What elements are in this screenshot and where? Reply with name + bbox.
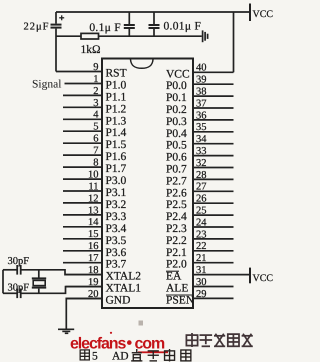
pin 9 RST wire, number and name label bbox=[56, 62, 127, 80]
capacitor C3 0.01uF with value label bbox=[149, 12, 202, 36]
svg-text:XTAL1: XTAL1 bbox=[106, 283, 142, 295]
svg-text:25: 25 bbox=[196, 206, 207, 217]
wire XTAL2 stub left of C4 bbox=[3, 269, 17, 271]
svg-text:12: 12 bbox=[88, 193, 99, 204]
pin 13 P3.3 wire, number and name label bbox=[63, 205, 127, 223]
pin 5 P1.4 wire, number and name label bbox=[63, 122, 127, 140]
svg-text:P0.7: P0.7 bbox=[166, 164, 187, 176]
svg-text:P3.7: P3.7 bbox=[106, 259, 127, 271]
svg-text:RST: RST bbox=[106, 68, 127, 80]
svg-text:P2.7: P2.7 bbox=[166, 175, 187, 187]
svg-text:com: com bbox=[135, 336, 165, 353]
svg-text:XTAL2: XTAL2 bbox=[106, 271, 142, 283]
svg-text:Signal: Signal bbox=[32, 79, 61, 91]
pin 14 P3.4 wire, number and name label bbox=[63, 217, 127, 235]
VCC terminal (right, at EA pin) with label bbox=[250, 268, 273, 284]
capacitor C1 22uF electrolytic with + and value label bbox=[24, 12, 65, 33]
svg-text:4: 4 bbox=[93, 110, 99, 121]
pin 40 VCC wire, number and name label bbox=[166, 63, 234, 81]
wire XTAL2 net (pin18 jog + top crystal wire) bbox=[22, 270, 103, 275]
capacitor C4 30pF with value label bbox=[8, 256, 30, 275]
crystal Y1 bbox=[32, 270, 46, 294]
pin 21 P2.0 wire, number and name label bbox=[166, 253, 234, 271]
svg-text:0.01μ F: 0.01μ F bbox=[164, 21, 202, 33]
svg-text:29: 29 bbox=[196, 289, 207, 300]
svg-text:AD: AD bbox=[112, 351, 129, 362]
svg-text:23: 23 bbox=[196, 229, 207, 240]
svg-text:9: 9 bbox=[93, 62, 98, 73]
svg-text:P0.2: P0.2 bbox=[166, 104, 187, 116]
svg-text:40: 40 bbox=[196, 63, 207, 74]
VCC terminal (top right) with label bbox=[250, 4, 273, 22]
resistor R1 1k with value label bbox=[80, 33, 100, 56]
pin 7 P1.6 wire, number and name label bbox=[63, 146, 127, 164]
svg-text:22μF: 22μF bbox=[24, 22, 50, 33]
svg-text:14: 14 bbox=[88, 217, 99, 228]
svg-text:1: 1 bbox=[93, 74, 98, 85]
svg-text:VCC: VCC bbox=[253, 273, 274, 284]
svg-text:P3.2: P3.2 bbox=[106, 199, 127, 211]
pin 1 P1.0 wire, number and name label bbox=[65, 74, 127, 92]
capacitor C5 30pF with value label bbox=[8, 283, 30, 299]
svg-text:0.1μ F: 0.1μ F bbox=[89, 22, 121, 34]
wire reset node vertical (cap to RST corner) bbox=[55, 29, 57, 72]
svg-text:P0.1: P0.1 bbox=[166, 92, 187, 104]
svg-text:GND: GND bbox=[106, 295, 131, 307]
pin 11 P3.1 wire, number and name label bbox=[63, 181, 127, 199]
svg-text:P2.3: P2.3 bbox=[166, 223, 187, 235]
pin 23 P2.2 wire, number and name label bbox=[166, 229, 234, 247]
caption 图5 AD采集电路 bbox=[80, 349, 191, 362]
svg-text:11: 11 bbox=[88, 181, 98, 192]
svg-text:P3.6: P3.6 bbox=[106, 247, 127, 259]
svg-text:36: 36 bbox=[196, 110, 207, 121]
svg-text:32: 32 bbox=[196, 158, 207, 169]
svg-text:P0.4: P0.4 bbox=[166, 128, 187, 140]
svg-text:31: 31 bbox=[196, 265, 207, 276]
svg-text:PSEN: PSEN bbox=[166, 294, 195, 306]
svg-text:16: 16 bbox=[88, 241, 99, 252]
svg-text:24: 24 bbox=[196, 217, 207, 228]
svg-text:P0.6: P0.6 bbox=[166, 152, 187, 164]
svg-text:30pF: 30pF bbox=[8, 283, 30, 294]
pin 32 P0.7 wire, number and name label bbox=[166, 158, 234, 176]
pin 29 PSEN wire, number and name label bbox=[166, 289, 234, 307]
pin 33 P0.6 wire, number and name label bbox=[166, 146, 234, 164]
IC U1 (8051 MCU) body with notch bbox=[102, 59, 193, 309]
svg-text:P3.4: P3.4 bbox=[106, 223, 127, 235]
svg-text:6: 6 bbox=[93, 134, 98, 145]
svg-text:26: 26 bbox=[196, 194, 207, 205]
svg-text:P1.7: P1.7 bbox=[106, 163, 127, 175]
pin 18 XTAL2 wire, number and name label bbox=[65, 265, 141, 283]
svg-text:5: 5 bbox=[92, 351, 98, 362]
ground (bottom earth symbol) bbox=[58, 329, 74, 333]
svg-text:P0.0: P0.0 bbox=[166, 80, 187, 92]
svg-text:P1.6: P1.6 bbox=[106, 151, 127, 163]
svg-text:P1.0: P1.0 bbox=[106, 80, 127, 92]
wire GND drop from pin 20 bbox=[66, 299, 102, 329]
svg-text:P2.6: P2.6 bbox=[166, 187, 187, 199]
pin 37 P0.2 wire, number and name label bbox=[166, 98, 234, 116]
svg-text:30: 30 bbox=[196, 277, 207, 288]
pin 22 P2.1 wire, number and name label bbox=[166, 241, 234, 259]
svg-text:P2.1: P2.1 bbox=[166, 247, 187, 259]
pin 3 P1.2 wire, number and name label bbox=[63, 98, 127, 116]
svg-text:35: 35 bbox=[196, 122, 207, 133]
ground (right side, rotated earth symbol) bbox=[203, 30, 208, 42]
svg-text:P1.2: P1.2 bbox=[106, 103, 127, 115]
pin 25 P2.4 wire, number and name label bbox=[166, 206, 234, 224]
pin 28 P2.7 wire, number and name label bbox=[166, 170, 234, 188]
svg-text:P3.0: P3.0 bbox=[106, 175, 127, 187]
pin 20 GND wire, number and name label bbox=[66, 289, 131, 307]
svg-text:P2.4: P2.4 bbox=[166, 211, 187, 223]
pin 16 P3.6 wire, number and name label bbox=[63, 241, 127, 259]
watermark elecfans.com (red logo) bbox=[70, 332, 168, 354]
svg-text:VCC: VCC bbox=[166, 68, 190, 80]
wire VCC top rail bbox=[56, 11, 250, 13]
svg-text:5: 5 bbox=[93, 122, 98, 133]
pin 27 P2.6 wire, number and name label bbox=[166, 182, 234, 200]
pin 17 P3.7 wire, number and name label bbox=[63, 253, 127, 271]
svg-text:21: 21 bbox=[196, 253, 207, 264]
svg-text:1kΩ: 1kΩ bbox=[80, 44, 100, 56]
svg-text:P1.3: P1.3 bbox=[106, 115, 127, 127]
wire cap common left bus bbox=[2, 270, 4, 294]
svg-text:13: 13 bbox=[88, 205, 99, 216]
pin 4 P1.3 wire, number and name label bbox=[63, 110, 127, 128]
svg-text:P2.0: P2.0 bbox=[166, 259, 187, 271]
svg-text:P0.3: P0.3 bbox=[166, 116, 187, 128]
pin 12 P3.2 wire, number and name label bbox=[63, 193, 127, 211]
pin 10 P3.0 wire, number and name label bbox=[63, 170, 127, 188]
pin 24 P2.3 wire, number and name label bbox=[166, 217, 234, 235]
svg-text:P2.2: P2.2 bbox=[166, 235, 187, 247]
wire VCC drop to pin 40 bbox=[233, 12, 235, 72]
svg-text:P1.1: P1.1 bbox=[106, 91, 127, 103]
small ink smudge bbox=[139, 321, 144, 326]
svg-text:P0.5: P0.5 bbox=[166, 140, 187, 152]
svg-text:28: 28 bbox=[196, 170, 207, 181]
pin 6 P1.5 wire, number and name label bbox=[63, 134, 127, 152]
svg-text:7: 7 bbox=[93, 146, 98, 157]
pin 39 P0.0 wire, number and name label bbox=[166, 75, 234, 93]
svg-text:P2.5: P2.5 bbox=[166, 199, 187, 211]
svg-text:22: 22 bbox=[196, 241, 207, 252]
svg-text:10: 10 bbox=[88, 170, 99, 181]
pin 2 P1.1 wire, number and name label bbox=[63, 86, 127, 104]
svg-text:P1.5: P1.5 bbox=[106, 139, 127, 151]
wire XTAL1 stub left of C5 bbox=[3, 292, 17, 294]
svg-text:2: 2 bbox=[93, 86, 98, 97]
svg-text:15: 15 bbox=[88, 229, 99, 240]
svg-text:P3.1: P3.1 bbox=[106, 187, 127, 199]
pin 31 EA wire, number and name label bbox=[166, 265, 250, 283]
svg-text:P1.4: P1.4 bbox=[106, 127, 127, 139]
pin 36 P0.3 wire, number and name label bbox=[166, 110, 234, 128]
svg-text:33: 33 bbox=[196, 146, 207, 157]
pin 35 P0.4 wire, number and name label bbox=[166, 122, 234, 140]
pin 8 P1.7 wire, number and name label bbox=[63, 158, 127, 176]
svg-text:ALE: ALE bbox=[166, 283, 188, 295]
pin 19 XTAL1 wire, number and name label bbox=[66, 277, 142, 295]
pin 15 P3.5 wire, number and name label bbox=[63, 229, 127, 247]
svg-text:P3.3: P3.3 bbox=[106, 211, 127, 223]
wire GND rail (reset node to right ground) bbox=[56, 35, 202, 37]
svg-text:34: 34 bbox=[196, 134, 207, 145]
svg-text:17: 17 bbox=[88, 253, 99, 264]
capacitor C2 0.1uF with value label bbox=[89, 12, 134, 36]
svg-text:38: 38 bbox=[196, 87, 207, 98]
watermark 电子发烧友 (dark brush characters) bbox=[186, 333, 252, 347]
pin 38 P0.1 wire, number and name label bbox=[166, 87, 234, 105]
wire XTAL1 net (pin19 jog + bottom crystal wire) bbox=[22, 287, 103, 294]
pin 30 ALE wire, number and name label bbox=[166, 277, 234, 295]
svg-text:P3.5: P3.5 bbox=[106, 235, 127, 247]
svg-text:30pF: 30pF bbox=[8, 256, 30, 267]
svg-text:37: 37 bbox=[196, 98, 207, 109]
svg-text:VCC: VCC bbox=[253, 9, 274, 20]
svg-text:27: 27 bbox=[196, 182, 207, 193]
svg-text:3: 3 bbox=[93, 98, 98, 109]
svg-text:EA: EA bbox=[166, 271, 182, 283]
pin 26 P2.5 wire, number and name label bbox=[166, 194, 234, 212]
pin 34 P0.5 wire, number and name label bbox=[166, 134, 234, 152]
svg-text:39: 39 bbox=[196, 75, 207, 86]
svg-text:8: 8 bbox=[93, 158, 98, 169]
